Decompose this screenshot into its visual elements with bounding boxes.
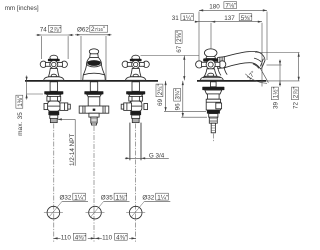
svg-text:1¼": 1¼" [74,194,85,201]
svg-text:110: 110 [61,235,72,242]
extension line back edge [198,12,200,62]
label hole 2 [101,193,130,202]
left valve below deck [44,82,70,123]
svg-text:Ø62: Ø62 [77,26,89,33]
side handle [196,49,226,77]
svg-text:1⅜": 1⅜" [116,194,127,201]
supply tube below right valve [129,123,131,161]
angle 17 deg arc [245,74,267,84]
svg-text:1¼": 1¼" [157,194,168,201]
dimension 39 [271,60,281,110]
svg-text:1/2-14 NPT: 1/2-14 NPT [69,134,76,166]
svg-text:1½": 1½" [271,87,279,98]
svg-text:137: 137 [224,15,235,22]
svg-text:74: 74 [40,26,48,33]
svg-text:67: 67 [176,45,183,53]
side escutcheon [200,77,223,81]
centerline right [135,124,137,242]
svg-text:2¾": 2¾" [157,84,164,95]
dimension 31 [172,14,216,23]
spout head chin line [254,58,261,62]
svg-text:Ø35: Ø35 [101,195,113,202]
svg-text:2⅞": 2⅞" [50,26,61,33]
dimension Ø62 [75,25,112,80]
dimension 67 [175,31,185,81]
leader 1/2-14 NPT [58,118,76,166]
svg-text:7⅛": 7⅛" [225,3,236,10]
svg-text:110: 110 [102,235,113,242]
mounting hole circle 3 [126,201,145,219]
right valve below deck [121,82,147,123]
svg-text:Ø32: Ø32 [142,195,154,202]
svg-text:39: 39 [272,101,279,109]
svg-text:96: 96 [175,103,182,111]
angle 17 deg face extension line [260,68,268,82]
extension line outlet bottom level [267,64,282,66]
spout outlet aerator [253,64,259,68]
svg-text:max. 35: max. 35 [17,112,24,136]
left handle cross [40,55,67,77]
dimension 96 [174,81,207,117]
side centerline [212,134,214,142]
spout root collar [218,57,225,69]
mounting hole circle 1 [44,201,63,219]
center tee below deck [79,82,109,125]
mounting hole circle 2 [86,201,105,219]
countertop extension to right edge [266,80,300,82]
svg-text:2⅝": 2⅝" [176,31,183,42]
extension line handle center [210,23,212,49]
svg-text:1¼": 1¼" [182,15,193,22]
dimension 74 [36,25,74,59]
centerline left [53,124,55,242]
dimension 137 [211,14,262,23]
svg-text:G 3/4: G 3/4 [149,152,165,159]
dimension max 35 [16,76,43,136]
dimension 110 right [95,233,136,242]
dimension 110 left [53,233,95,242]
svg-text:3¾": 3¾" [175,89,182,100]
svg-text:31: 31 [172,15,180,22]
extension line spout tip [266,12,268,61]
spout outlet face inner line [260,59,263,67]
spout front view [83,49,106,81]
label hole 3 [142,193,170,202]
svg-text:2⅞": 2⅞" [292,87,299,98]
left handle escutcheon [44,77,65,81]
svg-text:72: 72 [292,101,299,109]
svg-text:4⅜": 4⅜" [116,234,127,241]
right handle cross [122,55,149,77]
leader G 3/4 [125,152,169,159]
svg-text:5⅜": 5⅜" [241,15,252,22]
dimension 72 [292,53,300,110]
extension line spout top level [255,52,300,54]
countertop line front view [25,80,158,82]
side shank below deck [202,82,224,133]
centerline center [93,126,95,242]
right handle escutcheon [125,77,146,81]
svg-text:mm [inches]: mm [inches] [5,5,39,12]
countertop line side view [197,80,266,82]
svg-text:27/16": 27/16" [91,26,105,33]
extension line knob top level [141,55,200,57]
svg-text:69: 69 [157,98,164,106]
dimension 69 [156,81,206,111]
extension line outlet center [261,23,263,87]
svg-text:180: 180 [209,3,220,10]
label hole 1 [60,193,89,202]
svg-text:Ø32: Ø32 [60,195,72,202]
dimension 180 [199,2,267,12]
svg-text:1⅜": 1⅜" [17,96,24,107]
side spout body [224,51,265,68]
svg-text:4⅜": 4⅜" [75,234,86,241]
